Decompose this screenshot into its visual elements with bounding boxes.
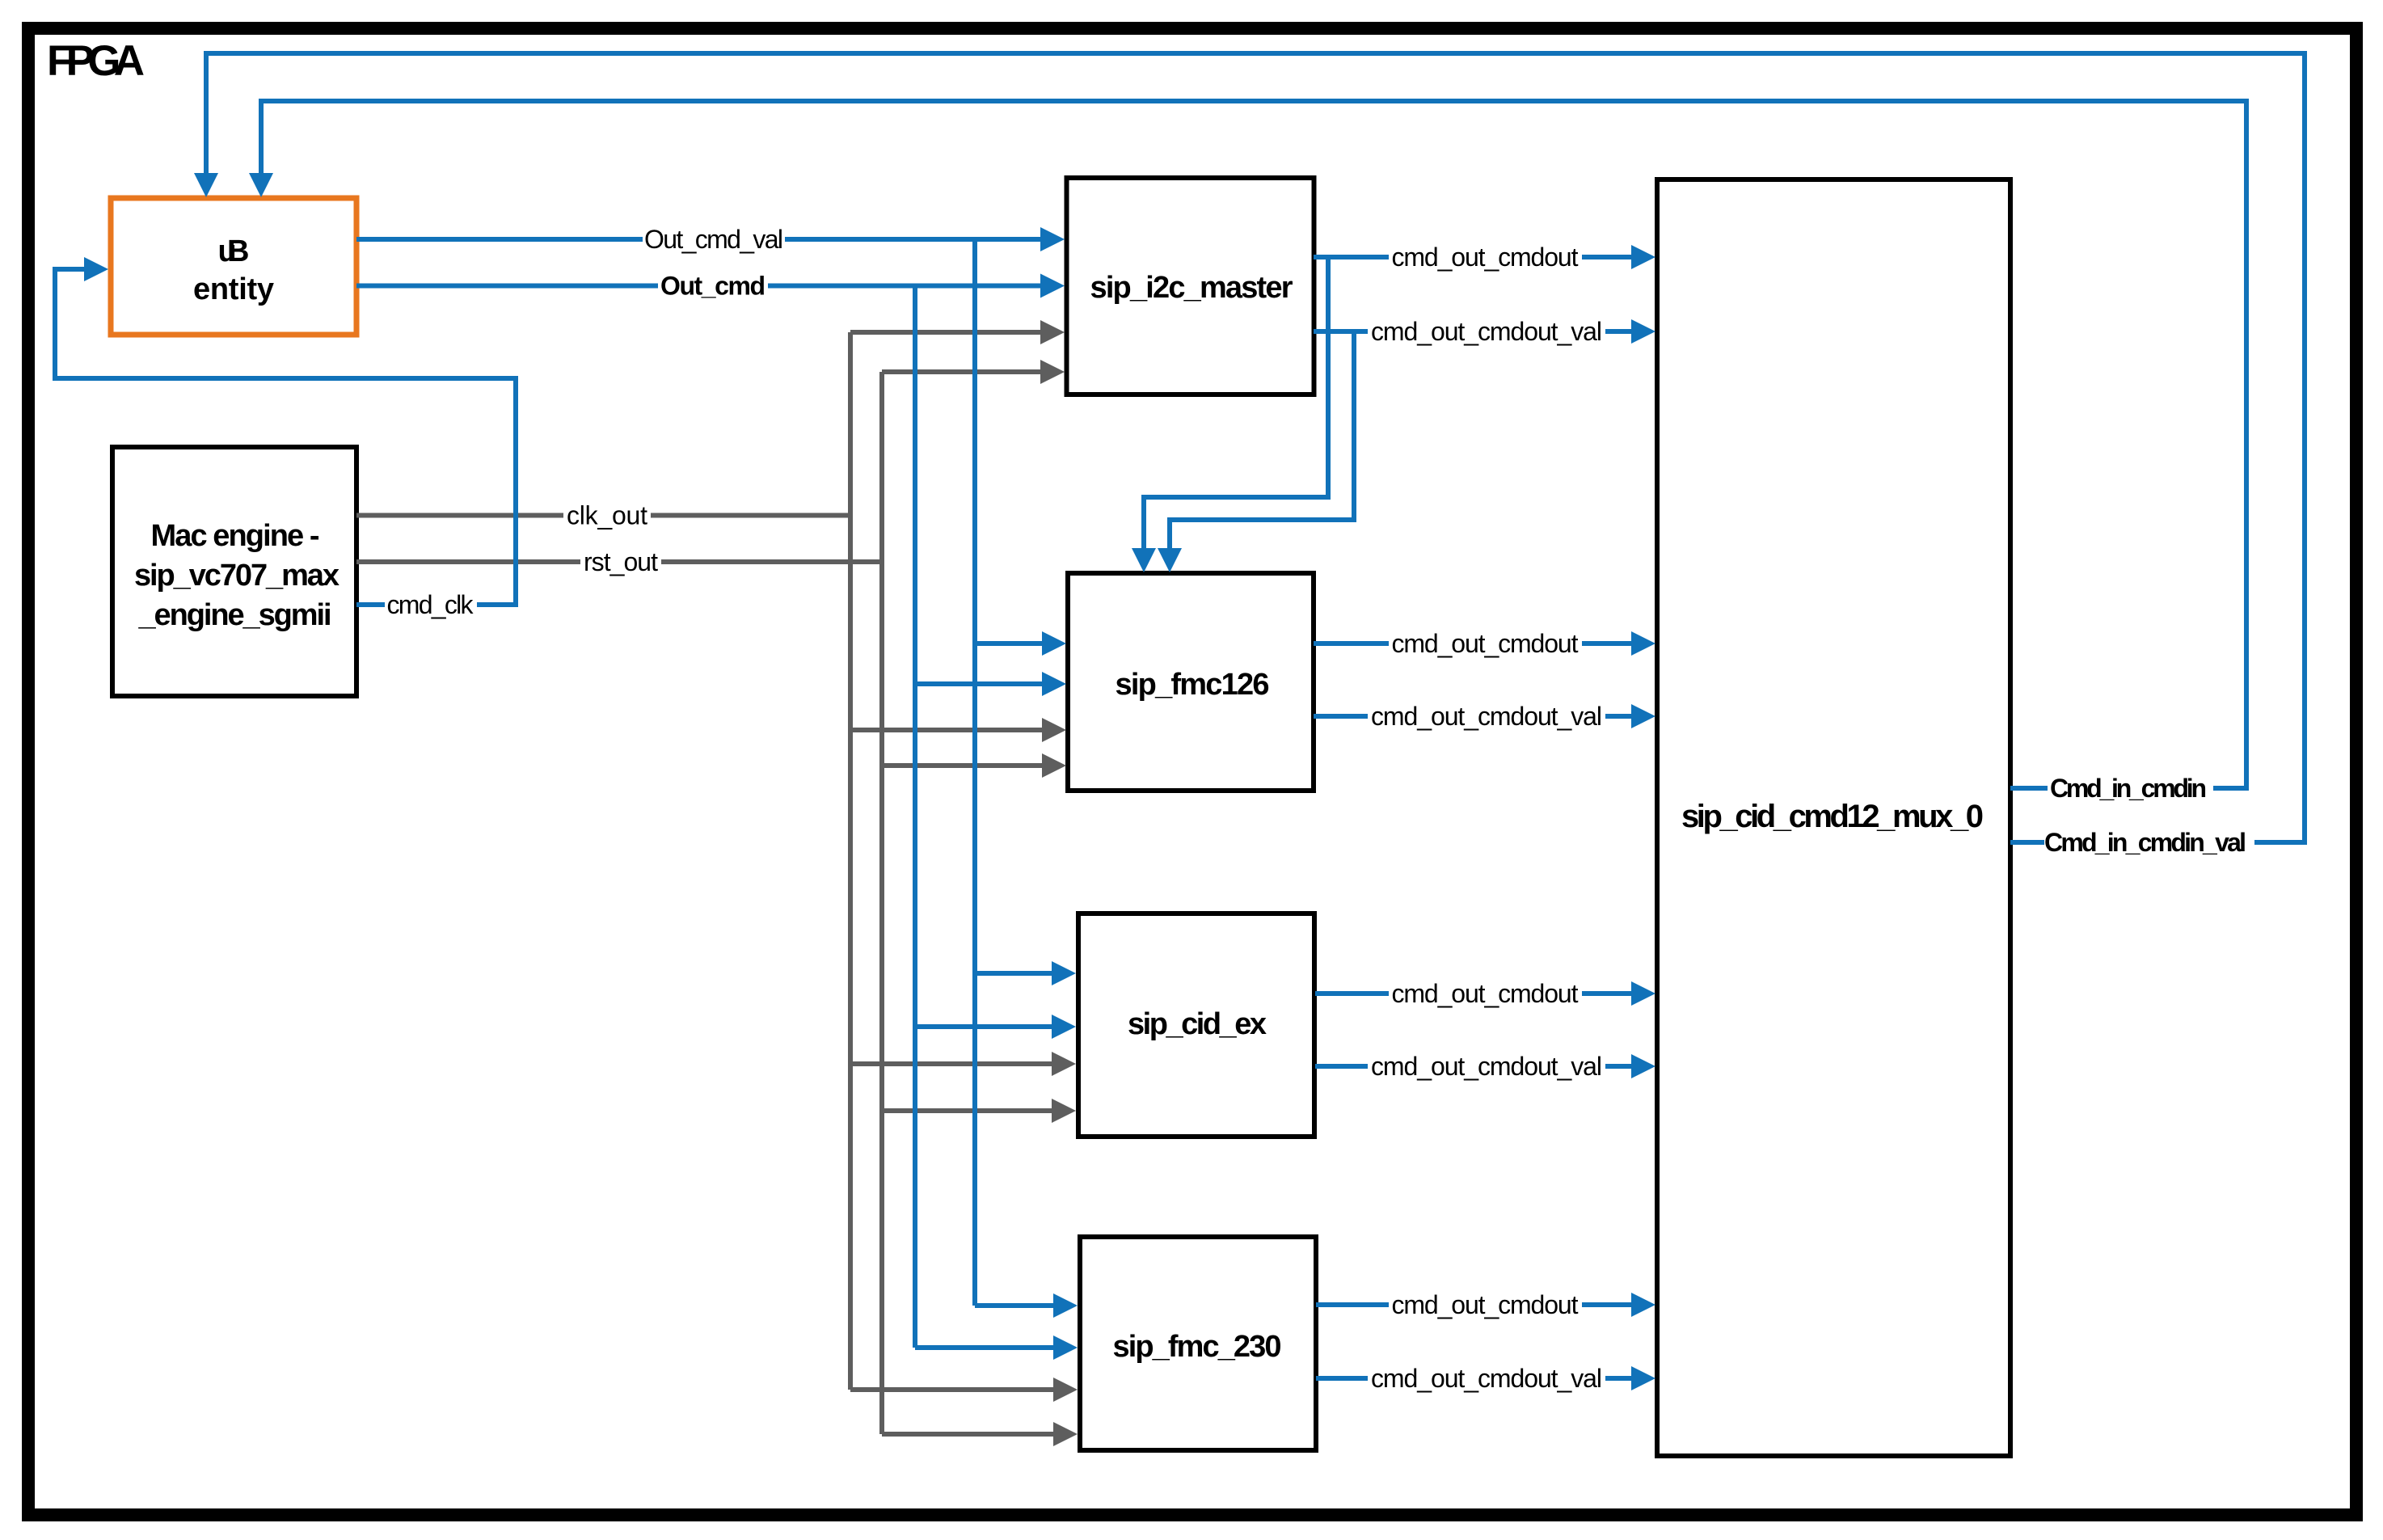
wire sip_i2c_master cmd_out_cmdout_val to mux [1170, 331, 1634, 550]
svg-text:cmd_clk: cmd_clk [387, 590, 474, 619]
arrowhead rst_out into sip_fmc126 [1042, 753, 1066, 778]
label cmd_clk [387, 590, 474, 619]
arrowhead cid_ex cmd_out_cmdout_val into mux [1631, 1054, 1655, 1078]
label Out_cmd [660, 272, 766, 301]
arrowhead fmc126 cmd_out_cmdout_val into mux [1631, 704, 1655, 728]
wire Out_cmd_val (blue bus 1) [356, 239, 1055, 1306]
block uB entity (orange) [111, 198, 356, 335]
label cid_ex cmd_out_cmdout [1392, 979, 1579, 1008]
arrowhead fmc_230 cmd_out_cmdout_val into mux [1631, 1366, 1655, 1390]
arrowhead Out_cmd into sip_fmc126 [1042, 672, 1066, 696]
block sip_cid_ex [1078, 913, 1314, 1137]
svg-text:cmd_out_cmdout_val: cmd_out_cmdout_val [1371, 702, 1602, 731]
svg-text:cmd_out_cmdout_val: cmd_out_cmdout_val [1371, 1364, 1602, 1393]
arrowhead clk_out into sip_cid_ex [1052, 1052, 1076, 1076]
wire rst_out (gray bus 2) [356, 372, 1055, 1434]
svg-text:entity: entity [193, 272, 274, 306]
arrowhead Cmd_in_cmdin_val into uB entity top [194, 173, 218, 197]
svg-text:cmd_out_cmdout: cmd_out_cmdout [1392, 979, 1579, 1008]
block sip_fmc126 [1068, 573, 1314, 791]
arrowhead fmc126 cmd_out_cmdout into mux [1631, 631, 1655, 656]
svg-text:sip_fmc_230: sip_fmc_230 [1113, 1330, 1282, 1364]
wire sip_fmc_230 cmd_out_cmdout_val to mux [1316, 1376, 1634, 1381]
svg-text:Out_cmd: Out_cmd [660, 272, 766, 301]
label clk_out [567, 501, 647, 530]
wire Out_cmd (blue bus 2) [356, 286, 1055, 1348]
arrowhead Out_cmd into sip_i2c_master [1040, 274, 1065, 298]
svg-text:uB: uB [218, 234, 250, 268]
wire Cmd_in_cmdin feedback (mux to uB) [261, 101, 2246, 788]
label fmc_230 cmd_out_cmdout [1392, 1290, 1579, 1319]
svg-text:cmd_out_cmdout: cmd_out_cmdout [1392, 243, 1579, 272]
wire cmd_clk loop Mac engine to uB [55, 269, 516, 605]
arrowhead Cmd_in_cmdin into uB entity top [249, 173, 273, 197]
label Cmd_in_cmdin_val [2044, 828, 2246, 857]
svg-text:Out_cmd_val: Out_cmd_val [644, 225, 783, 254]
FPGA label [47, 37, 145, 85]
wire sip_cid_ex cmd_out_cmdout_val to mux [1315, 1064, 1634, 1069]
wire sip_fmc126 cmd_out_cmdout_val to mux [1314, 714, 1634, 719]
arrowhead clk_out into sip_fmc126 [1042, 718, 1066, 742]
arrowhead fmc_230 cmd_out_cmdout into mux [1631, 1293, 1655, 1317]
svg-text:cmd_out_cmdout_val: cmd_out_cmdout_val [1371, 317, 1602, 346]
svg-text:Cmd_in_cmdin_val: Cmd_in_cmdin_val [2044, 828, 2246, 857]
block sip_i2c_master [1067, 178, 1314, 394]
arrowhead Out_cmd into sip_fmc_230 [1053, 1335, 1078, 1360]
arrowhead Out_cmd into sip_cid_ex [1052, 1015, 1076, 1039]
block sip_cid_cmd12_mux_0 [1657, 179, 2010, 1456]
arrowhead i2c feedback into sip_fmc126 top (right) [1158, 548, 1182, 572]
label fmc_230 cmd_out_cmdout_val [1371, 1364, 1602, 1393]
label rst_out [584, 547, 658, 576]
label fmc126 cmd_out_cmdout [1392, 629, 1579, 658]
svg-text:cmd_out_cmdout: cmd_out_cmdout [1392, 1290, 1579, 1319]
arrowhead rst_out into sip_cid_ex [1052, 1099, 1076, 1123]
svg-text:sip_vc707_max: sip_vc707_max [134, 559, 340, 593]
svg-text:cmd_out_cmdout_val: cmd_out_cmdout_val [1371, 1052, 1602, 1081]
wire sip_i2c_master cmd_out_cmdout to mux [1144, 257, 1634, 550]
arrowhead Out_cmd_val into sip_fmc126 [1042, 631, 1066, 656]
wire sip_fmc_230 cmd_out_cmdout to mux [1316, 1302, 1634, 1307]
label i2c cmd_out_cmdout [1392, 243, 1579, 272]
arrowhead i2c cmd_out_cmdout_val into mux [1631, 319, 1655, 344]
arrowhead Out_cmd_val into sip_i2c_master [1040, 227, 1065, 251]
svg-text:_engine_sgmii: _engine_sgmii [138, 598, 332, 632]
arrowhead i2c cmd_out_cmdout into mux [1631, 245, 1655, 269]
arrowhead rst_out into sip_i2c_master [1040, 360, 1065, 384]
arrowhead cmd_clk into uB entity [84, 257, 108, 281]
label cid_ex cmd_out_cmdout_val [1371, 1052, 1602, 1081]
svg-text:sip_cid_cmd12_mux_0: sip_cid_cmd12_mux_0 [1681, 799, 1984, 834]
svg-text:sip_i2c_master: sip_i2c_master [1090, 271, 1293, 305]
svg-text:rst_out: rst_out [584, 547, 658, 576]
wire sip_cid_ex cmd_out_cmdout to mux [1315, 991, 1634, 996]
arrowhead clk_out into sip_i2c_master [1040, 320, 1065, 344]
svg-text:Mac engine -: Mac engine - [151, 519, 320, 553]
arrowhead Out_cmd_val into sip_cid_ex [1052, 961, 1076, 985]
arrowhead Out_cmd_val into sip_fmc_230 [1053, 1293, 1078, 1318]
label Out_cmd_val [644, 225, 783, 254]
block sip_fmc_230 [1080, 1237, 1316, 1450]
wire sip_fmc126 cmd_out_cmdout to mux [1314, 641, 1634, 646]
arrowhead rst_out into sip_fmc_230 [1053, 1422, 1078, 1446]
label fmc126 cmd_out_cmdout_val [1371, 702, 1602, 731]
wire clk_out (gray bus 1) [356, 332, 1055, 1390]
svg-text:FPGA: FPGA [47, 37, 145, 85]
arrowhead i2c feedback into sip_fmc126 top (left) [1132, 548, 1156, 572]
svg-text:sip_fmc126: sip_fmc126 [1116, 668, 1270, 702]
svg-text:Cmd_in_cmdin: Cmd_in_cmdin [2050, 774, 2207, 803]
wire Cmd_in_cmdin_val feedback (mux to uB) [206, 53, 2305, 842]
svg-text:clk_out: clk_out [567, 501, 647, 530]
arrowhead cid_ex cmd_out_cmdout into mux [1631, 981, 1655, 1006]
svg-text:sip_cid_ex: sip_cid_ex [1128, 1007, 1267, 1041]
label Cmd_in_cmdin [2050, 774, 2207, 803]
label i2c cmd_out_cmdout_val [1371, 317, 1602, 346]
arrowhead clk_out into sip_fmc_230 [1053, 1378, 1078, 1402]
svg-text:cmd_out_cmdout: cmd_out_cmdout [1392, 629, 1579, 658]
block Mac engine sip_vc707_max_engine_sgmii [112, 447, 356, 696]
